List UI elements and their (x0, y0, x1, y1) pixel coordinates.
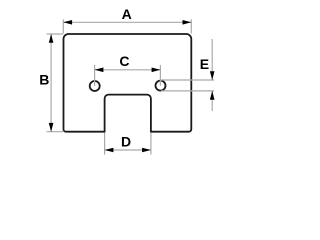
arrowhead A right (183, 20, 192, 25)
hole H1 (90, 81, 100, 91)
arrowhead C left (95, 68, 104, 73)
extension line C right (159, 65, 161, 86)
extension line D left (104, 133, 106, 155)
dim line C (95, 69, 161, 71)
hole H2 (156, 81, 166, 91)
extension line B top (47, 33, 64, 35)
extension line B bottom (47, 131, 64, 133)
arrowhead D right (142, 148, 151, 153)
arrowhead E lower (210, 91, 215, 100)
svg-text:A: A (122, 6, 132, 22)
label E (200, 56, 209, 72)
dim line E lower (211, 91, 213, 111)
extension line E bottom (161, 90, 214, 92)
arrowhead A left (63, 20, 72, 25)
dim line B (50, 34, 52, 132)
label B (39, 72, 49, 88)
extension line A left (62, 19, 64, 33)
label D (121, 134, 131, 150)
plate outline P1 (64, 34, 192, 132)
extension line D right (150, 133, 152, 155)
label C (119, 53, 129, 69)
svg-text:B: B (39, 72, 49, 88)
arrowhead D left (105, 148, 114, 153)
arrowhead B top (49, 34, 54, 43)
dim line D (105, 149, 151, 151)
svg-text:C: C (119, 53, 129, 69)
extension line A right (190, 19, 192, 33)
extension line C left (94, 65, 96, 86)
arrowhead B bottom (49, 123, 54, 132)
arrowhead C right (152, 68, 161, 73)
arrowhead E upper (210, 71, 215, 80)
svg-text:E: E (200, 56, 209, 72)
svg-text:D: D (121, 134, 131, 150)
label A (122, 6, 132, 22)
extension line E top (161, 79, 214, 81)
dim line A (63, 21, 191, 23)
dim line E upper (211, 39, 213, 80)
